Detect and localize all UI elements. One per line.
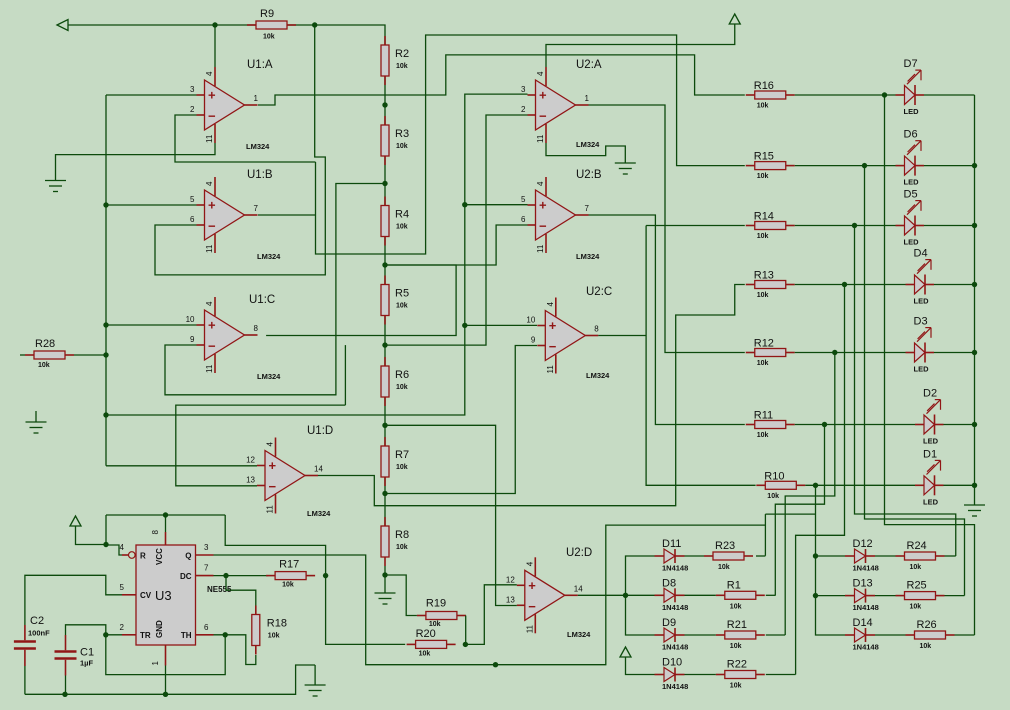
svg-text:−: − (549, 339, 557, 354)
wire R8 bottom node (385, 566, 417, 616)
svg-text:1µF: 1µF (80, 658, 93, 667)
svg-text:C2: C2 (30, 615, 44, 627)
wire D12 to R24 (875, 555, 896, 557)
wire R10 to D1 (805, 484, 915, 486)
ground R8 bottom (375, 593, 396, 604)
wire chain to D12 (816, 555, 846, 557)
wire D8 to R1 (685, 594, 716, 596)
op-amp U2:C (526, 298, 599, 374)
wire R28 input stub (20, 354, 25, 356)
svg-text:R17: R17 (279, 559, 299, 571)
svg-text:2: 2 (120, 623, 125, 632)
op-amp U1:C (186, 297, 259, 373)
wire R19 right (465, 616, 467, 645)
resistor R4 (381, 197, 409, 246)
svg-text:R9: R9 (260, 8, 274, 20)
svg-text:10k: 10k (757, 432, 769, 439)
svg-text:11: 11 (205, 134, 214, 143)
svg-text:R19: R19 (426, 598, 446, 610)
svg-text:13: 13 (246, 476, 255, 485)
wire VCC to reset (106, 515, 122, 555)
svg-text:10k: 10k (757, 233, 769, 240)
wire R14 left (646, 225, 745, 227)
svg-text:4: 4 (525, 561, 534, 566)
op-amp U1:A (190, 67, 258, 143)
svg-text:10k: 10k (396, 63, 408, 70)
svg-text:10k: 10k (396, 384, 408, 391)
svg-text:10k: 10k (718, 564, 730, 571)
junction U2:D out (623, 593, 628, 598)
svg-text:2: 2 (190, 105, 195, 114)
wire riser x315 (316, 35, 745, 254)
svg-text:D5: D5 (904, 189, 918, 201)
junction TH (223, 632, 228, 637)
svg-text:10k: 10k (419, 650, 431, 657)
wire top rail (68, 24, 256, 26)
svg-text:1N4148: 1N4148 (662, 643, 688, 652)
wire R11 to D2 (795, 424, 915, 426)
svg-text:10k: 10k (910, 564, 922, 571)
wire U1:A pin2 from tap line (175, 115, 316, 162)
wire arrow to D10 (626, 663, 655, 675)
wire tap6 to U2:C pin9 (385, 346, 537, 494)
junction C1 bus (62, 692, 67, 697)
junction TR (103, 632, 108, 637)
svg-text:VCC: VCC (155, 548, 164, 565)
junction trunk D1 (972, 483, 977, 488)
op-amp U2:D (506, 557, 583, 633)
wire R18 bottom (225, 635, 256, 665)
resistor R16 (746, 80, 795, 110)
svg-text:3: 3 (521, 85, 526, 94)
svg-text:4: 4 (536, 181, 545, 186)
svg-text:LM324: LM324 (246, 142, 270, 151)
ground LED trunk (964, 505, 985, 516)
junction trunk D6 (972, 163, 977, 168)
svg-text:D7: D7 (904, 58, 918, 70)
svg-text:10k: 10k (263, 34, 275, 41)
diode D8 (655, 577, 689, 612)
junction D1 node (813, 483, 818, 488)
svg-text:11: 11 (536, 244, 545, 253)
svg-text:LM324: LM324 (307, 509, 331, 518)
svg-text:LM324: LM324 (576, 252, 600, 261)
wire R12 to D3 (795, 352, 906, 354)
svg-text:10k: 10k (767, 493, 779, 500)
junction VCC reset (103, 542, 108, 547)
wire D14 to R26 (875, 634, 906, 636)
svg-text:R28: R28 (35, 338, 55, 350)
svg-text:10k: 10k (757, 360, 769, 367)
svg-text:NE555: NE555 (207, 585, 232, 594)
ground below R28 (26, 422, 47, 433)
svg-text:D11: D11 (662, 538, 681, 550)
svg-text:10k: 10k (396, 224, 408, 231)
svg-text:7: 7 (585, 204, 590, 213)
wire U1:C output (266, 265, 456, 336)
svg-text:12: 12 (506, 575, 515, 584)
wire D1 to trunk (944, 484, 975, 486)
svg-text:R10: R10 (764, 470, 784, 482)
resistor R20 (407, 628, 456, 658)
svg-text:U2:D: U2:D (566, 547, 592, 559)
svg-text:11: 11 (525, 624, 534, 633)
svg-text:+: + (208, 318, 216, 333)
svg-text:10: 10 (186, 315, 195, 324)
wire D1 node diode chain (816, 485, 846, 635)
svg-text:TR: TR (140, 631, 151, 640)
resistor R24 (896, 540, 945, 571)
wire U2:C pin10 (465, 324, 537, 326)
wire R24 up (945, 555, 956, 557)
LED D6 (896, 129, 925, 187)
svg-text:10k: 10k (282, 582, 294, 589)
svg-text:10k: 10k (757, 292, 769, 299)
svg-text:10k: 10k (38, 362, 50, 369)
diode D11 (655, 538, 689, 573)
svg-text:DC: DC (180, 572, 192, 581)
svg-text:LED: LED (914, 297, 930, 306)
svg-text:R2: R2 (395, 48, 409, 60)
wire U1:D pin12 (106, 465, 257, 467)
junction U2 bus pin5 (462, 202, 467, 207)
junction bus U2 branch (103, 412, 108, 417)
svg-text:D10: D10 (662, 657, 682, 669)
svg-text:D14: D14 (853, 617, 873, 629)
diode D10 (655, 657, 689, 692)
wire D10 to R22 (685, 674, 716, 676)
wire U1:C pin10 (106, 324, 197, 326)
wire U2:A output (589, 105, 745, 353)
svg-text:TH: TH (181, 631, 192, 640)
junction R8 bottom (382, 572, 387, 577)
svg-text:3: 3 (190, 85, 195, 94)
wire U2:D output (578, 594, 626, 596)
svg-text:7: 7 (254, 204, 259, 213)
svg-text:+: + (208, 198, 216, 213)
resistor R21 (716, 619, 765, 650)
svg-text:14: 14 (574, 584, 583, 593)
wire R1 to riser (766, 594, 776, 596)
ground near R18 (305, 685, 326, 696)
LED D2 (915, 388, 944, 446)
svg-text:4: 4 (205, 71, 214, 76)
resistor R11 (746, 410, 795, 440)
junction 555 gnd bus (163, 692, 168, 697)
svg-text:4: 4 (120, 543, 125, 552)
svg-text:R24: R24 (907, 540, 927, 552)
svg-text:D3: D3 (914, 316, 928, 328)
ground U1:A pin11 (45, 181, 66, 192)
wire U1:B output riser (258, 214, 316, 216)
wire D3 to trunk (934, 352, 975, 354)
wire ground bus (25, 665, 315, 694)
svg-text:6: 6 (521, 215, 526, 224)
wire R25 up (945, 595, 965, 597)
wire U2 plus bus (106, 94, 528, 415)
svg-text:R8: R8 (395, 529, 409, 541)
resistor R8 (381, 517, 409, 566)
wire TR to C1 (66, 625, 106, 635)
wire R21 to riser (766, 634, 785, 636)
svg-text:U2:A: U2:A (576, 59, 602, 71)
svg-text:Q: Q (185, 552, 191, 561)
wire R9 to divider top (287, 25, 385, 45)
svg-text:9: 9 (531, 336, 536, 345)
svg-text:D4: D4 (914, 248, 928, 260)
input terminal arrow (57, 20, 68, 31)
wire DC to R18 (226, 576, 256, 606)
diode D9 (655, 617, 689, 652)
svg-text:−: − (528, 599, 536, 614)
resistor R6 (381, 357, 409, 406)
wire U1:D output (318, 285, 745, 506)
svg-text:D6: D6 (904, 129, 918, 141)
svg-text:LED: LED (914, 365, 930, 374)
wire U1:A output (258, 55, 745, 105)
svg-text:C1: C1 (80, 647, 94, 659)
junction D3 node (832, 350, 837, 355)
svg-text:R11: R11 (754, 410, 773, 422)
wire R22 to riser (766, 674, 796, 676)
junction D5 node (852, 223, 857, 228)
junction top rail pin4 U1:A (212, 22, 217, 27)
svg-text:1N4148: 1N4148 (662, 603, 688, 612)
LED D3 (906, 316, 935, 374)
svg-text:100nF: 100nF (28, 629, 50, 638)
svg-text:7: 7 (204, 564, 209, 573)
svg-text:−: − (208, 109, 216, 124)
IC U3 NE555 (120, 530, 232, 666)
node tap5 (382, 423, 387, 428)
svg-text:10k: 10k (730, 643, 742, 650)
svg-text:10k: 10k (268, 633, 280, 640)
svg-text:10k: 10k (396, 143, 408, 150)
svg-text:5: 5 (521, 195, 526, 204)
wire U1:C pin9 (165, 184, 385, 395)
wire R19R20 to pin12 (465, 585, 516, 645)
svg-text:1N4148: 1N4148 (662, 564, 688, 573)
resistor R17 (266, 559, 315, 589)
diode D13 (845, 578, 879, 613)
svg-text:11: 11 (546, 365, 555, 374)
resistor R19 (417, 598, 466, 629)
wire D13 to R25 (875, 595, 896, 597)
wire ground stem R8 (384, 575, 386, 593)
wire R28 out (74, 354, 106, 356)
svg-text:R: R (140, 552, 146, 561)
svg-text:U3: U3 (155, 588, 172, 603)
wire 555 pin8 (165, 515, 167, 532)
resistor R13 (746, 270, 795, 300)
svg-text:R16: R16 (754, 80, 774, 92)
diode D14 (845, 617, 879, 652)
wire R26 up (955, 634, 975, 636)
svg-text:U1:B: U1:B (247, 169, 273, 181)
svg-text:4: 4 (205, 301, 214, 306)
svg-text:R23: R23 (715, 540, 735, 552)
svg-text:+: + (269, 458, 277, 473)
svg-text:10k: 10k (396, 544, 408, 551)
svg-text:D1: D1 (923, 448, 937, 460)
wire divider column (384, 45, 386, 556)
svg-text:6: 6 (204, 623, 209, 632)
svg-text:1N4148: 1N4148 (662, 682, 688, 691)
svg-text:10k: 10k (757, 173, 769, 180)
junction bus pin10 (103, 322, 108, 327)
svg-text:4: 4 (205, 181, 214, 186)
junction trunk D5 (972, 223, 977, 228)
wire tap3 to U2:B pin6 (385, 225, 528, 265)
resistor R26 (906, 619, 955, 650)
wire U1:B pin5 (106, 204, 197, 206)
resistor R15 (746, 151, 795, 181)
svg-text:11: 11 (536, 134, 545, 143)
junction trunk D4 (972, 282, 977, 287)
junction Q to pin13 (493, 662, 498, 667)
wire VCC arrow down (76, 532, 107, 545)
resistor R28 (25, 338, 74, 369)
resistor R14 (746, 211, 795, 241)
svg-text:12: 12 (246, 456, 255, 465)
wire D5 to trunk (924, 225, 975, 227)
LED D7 (896, 58, 925, 116)
svg-text:−: − (208, 219, 216, 234)
svg-text:R25: R25 (907, 580, 927, 592)
svg-text:4: 4 (536, 71, 545, 76)
LED D1 (915, 448, 944, 506)
wire D7 node to R26 (885, 95, 975, 635)
power VCC arrow (729, 14, 740, 24)
junction U2 bus pin10 (462, 323, 467, 328)
svg-text:U1:A: U1:A (247, 59, 273, 71)
wire tap5 to U2:D pin13 riser (385, 425, 517, 605)
op-amp U1:D (246, 438, 323, 514)
node tap2 (382, 181, 387, 186)
svg-text:R14: R14 (754, 211, 774, 223)
wire input bus vertical (105, 95, 107, 466)
svg-text:R22: R22 (727, 659, 747, 671)
svg-text:+: + (208, 88, 216, 103)
wire D9 to R21 (685, 634, 716, 636)
junction R19 R20 (463, 642, 468, 647)
ground U2:A pin11 (615, 163, 636, 174)
svg-text:+: + (528, 578, 536, 593)
junction D4 node (842, 282, 847, 287)
wire C1 to ground bus (65, 676, 67, 695)
svg-text:−: − (539, 219, 547, 234)
wire D4 node to R22 (796, 285, 845, 675)
svg-text:D8: D8 (662, 577, 676, 589)
junction D2 node (822, 422, 827, 427)
diode D12 (845, 538, 879, 573)
wire R13 to D4 (795, 284, 906, 286)
wire C2 to ground bus (24, 666, 26, 694)
wire D11 to R23 (685, 555, 705, 557)
svg-text:U1:D: U1:D (307, 425, 333, 437)
svg-text:R12: R12 (754, 338, 774, 350)
svg-text:8: 8 (151, 530, 160, 535)
junction trunk D3 (972, 350, 977, 355)
svg-text:1N4148: 1N4148 (853, 603, 879, 612)
svg-text:R6: R6 (395, 369, 409, 381)
svg-text:4: 4 (546, 302, 555, 307)
resistor R9 (247, 8, 296, 41)
svg-text:−: − (539, 109, 547, 124)
power VCC arrow (620, 647, 631, 657)
wire D2 to trunk (944, 424, 975, 426)
svg-text:LED: LED (904, 178, 920, 187)
wire D7 to trunk (924, 94, 975, 96)
capacitor C2 (14, 615, 50, 666)
junction D6 node (862, 163, 867, 168)
svg-text:LED: LED (904, 107, 920, 116)
wire ground stem below R28 (35, 411, 37, 422)
wire TH loop (106, 635, 225, 675)
resistor R12 (746, 338, 795, 368)
svg-text:6: 6 (190, 215, 195, 224)
svg-text:14: 14 (314, 465, 323, 474)
svg-text:−: − (269, 479, 277, 494)
svg-text:5: 5 (120, 583, 125, 592)
wire R14 to D5 (795, 225, 896, 227)
junction trunk D2 (972, 422, 977, 427)
wire ground stem R18 (314, 665, 316, 685)
svg-text:R18: R18 (267, 618, 287, 630)
wire R17 right to R20 left (326, 576, 406, 645)
op-amp U2:B (521, 177, 589, 253)
svg-text:R4: R4 (395, 209, 409, 221)
wire R15 to D6 (795, 165, 896, 167)
svg-text:D12: D12 (853, 538, 873, 550)
junction bus R28 (103, 352, 108, 357)
svg-text:5: 5 (190, 195, 195, 204)
resistor R2 (381, 36, 409, 85)
svg-text:U2:B: U2:B (576, 169, 602, 181)
wire U2:B output (589, 215, 745, 425)
svg-text:8: 8 (254, 324, 259, 333)
junction D12 anode (813, 553, 818, 558)
svg-text:1: 1 (151, 661, 160, 666)
wire out to D9 (626, 595, 655, 635)
wire DC node (214, 575, 269, 577)
svg-text:1: 1 (254, 94, 259, 103)
op-amp U2:A (521, 67, 589, 143)
wire VCC to R17 right (225, 515, 325, 576)
svg-text:1: 1 (585, 94, 590, 103)
svg-text:LM324: LM324 (576, 140, 600, 149)
svg-text:2: 2 (521, 105, 526, 114)
resistor R25 (896, 580, 945, 611)
svg-text:9: 9 (190, 335, 195, 344)
svg-text:U2:C: U2:C (586, 286, 612, 298)
svg-text:R1: R1 (727, 579, 741, 591)
resistor R22 (716, 659, 765, 690)
svg-text:8: 8 (594, 325, 599, 334)
svg-text:1N4148: 1N4148 (853, 564, 879, 573)
resistor R23 (704, 540, 753, 571)
svg-text:D2: D2 (923, 388, 937, 400)
wire tap4 to U2:A pin2 (385, 115, 528, 345)
svg-text:LM324: LM324 (257, 252, 281, 261)
wire U1:A pin4 from rail (214, 25, 216, 67)
svg-text:LM324: LM324 (257, 372, 281, 381)
LED D5 (896, 189, 925, 247)
wire out to D8 (626, 594, 655, 596)
capacitor C1 (55, 635, 95, 676)
svg-text:R3: R3 (395, 128, 409, 140)
LED D4 (906, 248, 935, 306)
